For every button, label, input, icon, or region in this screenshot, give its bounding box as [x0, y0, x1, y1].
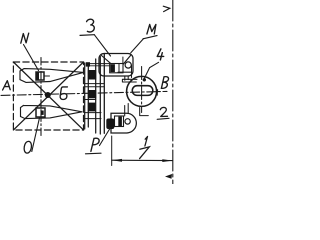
wheel circle B: [127, 76, 157, 106]
housing lower (unit P): [111, 113, 136, 133]
label З: [87, 19, 95, 32]
bolt blob lower: [106, 119, 114, 130]
node A centerline (horizontal machine axis): [1, 91, 167, 95]
dimension extension line: [111, 136, 113, 166]
column rails: [84, 63, 86, 129]
wire diagonal TL-BR: [13, 62, 83, 130]
step under housing: [118, 65, 137, 82]
pin circle upper: [125, 62, 131, 68]
leader O: [32, 118, 40, 152]
arrow right: [162, 159, 172, 162]
label N: [21, 33, 29, 43]
label М: [147, 24, 156, 34]
column bolt blocks: [88, 70, 96, 80]
label Р: [91, 138, 99, 151]
section axis right: [172, 0, 174, 184]
label 7 mark: [140, 147, 150, 159]
label A: [3, 81, 11, 90]
label 2: [160, 107, 167, 116]
mech box upper: [110, 64, 123, 73]
axis arrow bottom: [165, 174, 172, 179]
housing upper (unit M): [99, 54, 133, 77]
column bars: [84, 83, 104, 85]
bracket left wall: [103, 54, 105, 134]
clamp lower bolt square: [36, 108, 45, 117]
label 1: [145, 137, 148, 147]
capsule inside: [132, 86, 153, 96]
dimension line: [112, 159, 173, 161]
clamp upper outline: [20, 69, 83, 83]
leader Р: [100, 128, 111, 146]
steps under wheel: [125, 104, 149, 117]
pin circle lower: [125, 119, 130, 124]
label 4: [157, 49, 164, 60]
axis arrow top: [163, 6, 170, 11]
node axis vertical through fixture: [40, 58, 42, 137]
table dashed rectangle: [13, 62, 83, 130]
mech box lower: [115, 116, 124, 127]
wire diagonal BL-TR: [13, 62, 83, 130]
clamp lower outline: [21, 105, 83, 118]
arrow left: [112, 159, 122, 162]
funnel jaws: [102, 56, 131, 65]
node centerline tick: [156, 90, 158, 96]
leader N: [24, 45, 39, 71]
leader 4: [144, 62, 158, 78]
label О: [24, 141, 31, 153]
leader bar into housing: [87, 64, 110, 66]
leader З: [94, 35, 110, 56]
wheel vertical axis: [141, 67, 143, 113]
clamp upper bolt square: [36, 72, 44, 80]
label В: [161, 77, 168, 89]
label Б: [60, 87, 67, 100]
leader М: [131, 39, 144, 53]
node Б center dot: [45, 92, 51, 98]
